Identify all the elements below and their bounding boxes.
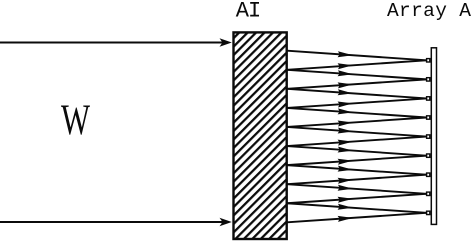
ray from AI point 5 down to array element 5 (with arrowhead): [287, 127, 426, 137]
ray from AI point 2 up to array element 1 (with arrowhead): [287, 60, 426, 69]
detector element 8 of array A: [427, 192, 430, 195]
ray from AI point 8 up to array element 7 (with arrowhead): [287, 175, 426, 184]
ray from AI point 1 down to array element 1 (with arrowhead): [287, 51, 426, 61]
detector element 6 of array A: [427, 154, 430, 157]
ray from AI point 6 down to array element 6 (with arrowhead): [287, 146, 426, 156]
ray from AI point 8 down to array element 8 (with arrowhead): [287, 184, 426, 194]
ray from AI point 7 up to array element 6 (with arrowhead): [287, 156, 426, 165]
input plane wave arrow (top): [0, 38, 232, 47]
ray from AI point 7 down to array element 7 (with arrowhead): [287, 165, 426, 175]
svg-text:AI: AI: [236, 0, 260, 24]
ray from AI point 4 up to array element 3 (with arrowhead): [287, 98, 426, 107]
ray from AI point 9 up to array element 8 (with arrowhead): [287, 194, 426, 203]
svg-text:W: W: [61, 97, 90, 144]
ray from AI point 6 up to array element 5 (with arrowhead): [287, 137, 426, 146]
array illuminator plate AI (hatched): [234, 32, 287, 239]
ray from AI point 10 up to array element 9 (with arrowhead): [287, 213, 426, 222]
detector element 1 of array A: [427, 59, 430, 62]
ray from AI point 3 down to array element 3 (with arrowhead): [287, 89, 426, 99]
ray from AI point 9 down to array element 9 (with arrowhead): [287, 203, 426, 213]
detector element 2 of array A: [427, 78, 430, 81]
svg-text:Array A: Array A: [387, 0, 471, 22]
detector element 3 of array A: [427, 97, 430, 100]
detector element 5 of array A: [427, 135, 430, 138]
ray from AI point 4 down to array element 4 (with arrowhead): [287, 108, 426, 118]
detector element 4 of array A: [427, 116, 430, 119]
array A substrate bar: [431, 48, 436, 225]
ray from AI point 2 down to array element 2 (with arrowhead): [287, 70, 426, 80]
detector element 9 of array A: [427, 211, 430, 214]
ray from AI point 5 up to array element 4 (with arrowhead): [287, 118, 426, 127]
input plane wave arrow (bottom): [0, 218, 232, 227]
detector element 7 of array A: [427, 173, 430, 176]
ray from AI point 3 up to array element 2 (with arrowhead): [287, 79, 426, 88]
